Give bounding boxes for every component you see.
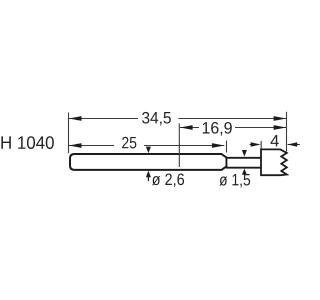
arrowhead 16,9 right [274,125,287,130]
label diameter 2,6 [152,173,184,187]
dimension line 16,9 [180,127,286,129]
diameter 2,6 leader stem [147,177,149,181]
label 16,9 [199,120,235,136]
part number H 1040 [1,136,53,149]
dimension 4 right arrow [288,144,300,146]
dimension 4 left arrow [250,144,259,146]
plunger shaft [227,158,262,168]
probe barrel [70,154,227,170]
extension line 16,9 (x=179) [178,124,180,168]
arrowhead 25 left [69,143,82,148]
dimension line 25 [69,145,224,147]
arrowhead 34,5 right [274,116,287,121]
diameter 2,6 bottom arrow [146,171,151,178]
extension line 25 right (x=226) [226,141,228,153]
diameter 1,5 top arrow [242,150,247,157]
dimension line 34,5 [69,118,286,120]
extension line left (x=68.4) [68,113,70,154]
extension line right (x=287) [286,112,288,152]
serrated head tip [261,149,287,175]
diameter 2,6 top arrow [146,147,151,154]
arrowhead 34,5 left [69,116,82,121]
label 4 [270,135,278,146]
label 25 [114,135,144,150]
diameter 1,5 bottom arrow [242,169,247,175]
arrowhead 25 right [212,143,225,148]
arrowhead 16,9 left [180,125,193,130]
label diameter 1,5 [219,174,250,187]
label 34,5 [138,110,178,128]
extension line 4 left (x=261) [260,141,262,149]
